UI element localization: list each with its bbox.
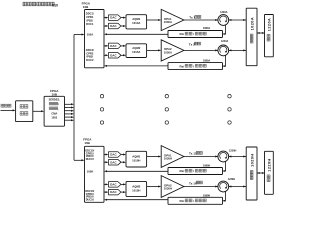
wire Rx3 return to FPGA2 [104, 170, 168, 172]
svg-text:/: / [193, 199, 194, 203]
svg-text:1230H: 1230H [229, 150, 237, 153]
svg-text:/PB1/: /PB1/ [86, 18, 93, 22]
svg-text:Tx 16: Tx 16 [189, 181, 197, 185]
svg-text:1080A: 1080A [203, 27, 211, 30]
svg-text:DAC: DAC [110, 153, 117, 157]
svg-text:1030A: 1030A [164, 20, 172, 24]
duplexer 1020A box [246, 8, 257, 65]
amplifier DPA1 1030H [161, 146, 184, 168]
wire Tx1 output [184, 19, 218, 21]
label 1080H row4 [203, 194, 211, 197]
Rx/feedback/cal module row4 [168, 197, 223, 204]
wire Rx2 return to FPGA1 [104, 65, 168, 67]
svg-text:DAC: DAC [110, 44, 117, 48]
wire FPGA1 to DAC4 [104, 54, 109, 56]
label Tx 15 output [189, 152, 202, 156]
DAC D8 [109, 189, 122, 195]
svg-text:1080H: 1080H [203, 164, 211, 167]
svg-text:CMA: CMA [51, 111, 57, 115]
ellipsis column 1 [100, 95, 103, 125]
svg-text:1015A: 1015A [132, 50, 140, 54]
wire duplexer1 to antenna1 [257, 32, 265, 34]
svg-text:DUC15: DUC15 [86, 158, 95, 161]
svg-text:1080A: 1080A [203, 59, 211, 62]
svg-text:1055: 1055 [51, 116, 57, 120]
svg-text:100A: 100A [87, 32, 93, 36]
wire FPGA3 bus stub 5 [65, 116, 75, 118]
wire bus to FPGA2 [74, 159, 85, 161]
svg-text:CPR1: CPR1 [86, 15, 94, 19]
circulator 1230H row4 [218, 181, 229, 192]
svg-text:10B: 10B [83, 5, 89, 9]
Rx/feedback/cal module row2 [168, 63, 223, 70]
wire FPGA1 to DAC2 [104, 25, 109, 27]
wire FPGA3 bus stub 1 [65, 103, 75, 105]
wire circulator3 down to Rx3 [223, 161, 226, 172]
svg-text:1220A: 1220A [267, 18, 271, 31]
svg-text:10B: 10B [52, 92, 58, 96]
amplifier DPA1 1030A [161, 9, 184, 30]
svg-text:100H: 100H [87, 169, 93, 173]
DAC D3 [109, 43, 122, 49]
wire circulator4 to duplexer2 [228, 186, 246, 188]
wire DAC5 to AQM3 [121, 154, 126, 156]
label 1080H row3 [203, 164, 211, 167]
wire circulator1 to duplexer [228, 19, 246, 21]
svg-text:1230A: 1230A [221, 40, 229, 43]
amplifier DPA2 1030H [161, 176, 184, 198]
wire FPGA3 bus stub 3 [65, 110, 75, 112]
wire FPGA2 to DAC7 [104, 183, 109, 185]
svg-text:1010H: 1010H [132, 158, 140, 162]
svg-text:10B: 10B [84, 141, 90, 145]
wire Tx16 output [184, 186, 218, 188]
svg-text:Tx 15: Tx 15 [189, 152, 197, 156]
Rx/feedback/cal module row3 [168, 168, 223, 175]
svg-text:Rx/: Rx/ [180, 32, 185, 36]
modulator AQM4 1015H [126, 181, 147, 196]
duplexer 1020H box [246, 147, 257, 200]
svg-text:DUC16: DUC16 [86, 198, 95, 201]
wire Tx15 output [184, 156, 218, 158]
wire interface to FPGA3 [33, 110, 44, 112]
wire AQM2 to DPA2 [147, 49, 162, 51]
wire duplexer2 to antenna2 [257, 172, 265, 174]
svg-text:Rx/: Rx/ [180, 199, 185, 203]
wire Rx4 return to FPGA2 [104, 199, 168, 201]
wire AQM4 to DPA4 [147, 186, 162, 188]
circulator 1230A [218, 15, 229, 26]
label 1080A row1 [203, 27, 211, 30]
FPGA U1 label [82, 2, 91, 10]
FPGA U1 box [85, 10, 105, 68]
wire FPGA2 to DAC6 [104, 161, 109, 163]
wire circulator1 down to Rx1 [223, 25, 226, 36]
svg-text:1015H: 1015H [132, 189, 140, 193]
svg-text:1220H: 1220H [267, 158, 271, 171]
DAC D2 [109, 23, 122, 29]
antenna 1220A box [265, 15, 274, 57]
FPGA U2 label [83, 137, 92, 145]
circulator 1230A row2 [218, 45, 229, 56]
FPGA U3 label [50, 89, 59, 97]
svg-text:/: / [193, 32, 194, 36]
svg-text:DAC: DAC [110, 53, 117, 57]
svg-text:010: 010 [52, 3, 58, 7]
DAC D1 [109, 15, 122, 21]
wire bus to FPGA1 [74, 34, 85, 36]
wire circulator3 to duplexer2 [228, 156, 246, 158]
FPGA U2 box [85, 146, 105, 202]
Rx/feedback/cal module row1 [168, 31, 223, 38]
svg-text:Rx/: Rx/ [180, 64, 185, 68]
svg-text:Rx/: Rx/ [180, 169, 185, 173]
ellipsis column 3 [228, 95, 231, 125]
modulator AQM2 1015A [126, 44, 147, 58]
DAC D4 [109, 53, 122, 59]
modulator AQM1 1010A [126, 15, 147, 29]
wire optical input [1, 109, 16, 111]
wire circulator2 to duplexer [228, 49, 246, 51]
wire FPGA3 bus stub 4 [65, 113, 75, 115]
wire DAC3 to AQM2 [121, 45, 126, 47]
svg-text:1030H: 1030H [164, 157, 172, 161]
svg-text:/: / [193, 64, 194, 68]
svg-text:DDC1/: DDC1/ [86, 12, 94, 16]
svg-text:/: / [193, 169, 194, 173]
DAC D5 [109, 152, 122, 158]
modulator AQM3 1010H [126, 151, 147, 167]
DAC D6 [109, 159, 122, 165]
label optical input [1, 104, 11, 107]
svg-text:SERDES,: SERDES, [49, 98, 61, 102]
svg-text:DUC1: DUC1 [86, 22, 94, 26]
svg-text:DAC: DAC [110, 16, 117, 20]
antenna 1220H box [265, 151, 274, 194]
wire FPGA2 to DAC8 [104, 191, 109, 193]
label Tx 2 output [189, 42, 201, 46]
node title 本通道处理单元010 [23, 2, 58, 7]
svg-text:DAC: DAC [110, 182, 117, 186]
svg-text:DUC2: DUC2 [86, 58, 94, 62]
wire DAC8 to AQM4 [121, 191, 126, 193]
wire DAC4 to AQM2 [121, 54, 126, 56]
wire DAC2 to AQM1 [121, 25, 126, 27]
label Tx 16 output [189, 181, 202, 185]
label 1230H row4 [228, 178, 236, 181]
label 1230A [220, 11, 228, 14]
svg-text:CPR2: CPR2 [86, 51, 94, 55]
svg-text:DDC2/: DDC2/ [86, 48, 94, 52]
wire AQM1 to DPA1 [147, 19, 162, 21]
wire circulator2 down to Rx2 [223, 55, 226, 67]
svg-text:1020H: 1020H [250, 153, 254, 166]
wire circulator4 down to Rx4 [223, 191, 226, 202]
optical interface box [16, 101, 33, 122]
wire DAC6 to AQM3 [121, 161, 126, 163]
svg-text:1020A: 1020A [250, 17, 254, 30]
svg-text:1230A: 1230A [220, 11, 228, 14]
DAC D7 [109, 182, 122, 188]
svg-text:DAC: DAC [110, 190, 117, 194]
label 1080A row2 [203, 59, 211, 62]
bus vertical wire [73, 35, 75, 161]
wire FPGA1 to DAC1 [104, 17, 109, 19]
svg-text:DAC: DAC [110, 24, 117, 28]
wire FPGA1 to DAC3 [104, 45, 109, 47]
ellipsis column 2 [165, 95, 168, 125]
svg-text:/PB2/: /PB2/ [86, 55, 93, 59]
label 1230A row2 [221, 40, 229, 43]
wire Tx2 output [184, 49, 218, 51]
wire AQM3 to DPA3 [147, 156, 162, 158]
svg-text:1230H: 1230H [228, 178, 236, 181]
wire DAC1 to AQM1 [121, 17, 126, 19]
circulator 1230H row3 [218, 151, 229, 162]
wire FPGA3 bus stub 2 [65, 107, 75, 109]
wire FPGA2 to DAC5 [104, 154, 109, 156]
svg-text:1030A: 1030A [164, 50, 172, 54]
label 1230H row3 [229, 150, 237, 153]
FPGA U3 SERDES box [44, 96, 64, 126]
wire Rx1 return to FPGA1 [104, 33, 168, 35]
svg-text:1010A: 1010A [132, 21, 140, 25]
svg-text:1030H: 1030H [164, 187, 172, 191]
label Tx 1 output [189, 16, 201, 20]
wire DAC7 to AQM4 [121, 183, 126, 185]
amplifier DPA2 1030A [161, 40, 184, 61]
svg-text:DAC: DAC [110, 160, 117, 164]
wire FPGA3 bus stub 6 [65, 119, 75, 121]
